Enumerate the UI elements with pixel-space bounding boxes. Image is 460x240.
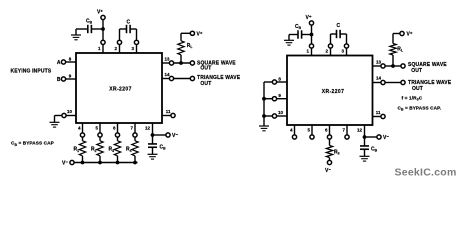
svg-text:B: B: [57, 77, 61, 83]
svg-text:12: 12: [357, 128, 363, 133]
svg-text:V⁺: V⁺: [306, 15, 312, 21]
svg-text:C: C: [126, 20, 130, 26]
svg-text:11: 11: [376, 110, 381, 115]
svg-text:V⁻: V⁻: [383, 135, 389, 141]
svg-text:SeekIC.com: SeekIC.com: [395, 167, 457, 179]
svg-text:10: 10: [67, 109, 73, 114]
svg-text:OUT: OUT: [412, 86, 423, 92]
svg-text:V⁻: V⁻: [325, 168, 331, 174]
svg-text:13: 13: [376, 60, 382, 65]
svg-text:XR-2207: XR-2207: [109, 87, 132, 93]
svg-text:V⁺: V⁺: [197, 31, 203, 37]
svg-text:XR-2207: XR-2207: [322, 89, 345, 95]
svg-text:V⁻: V⁻: [62, 161, 68, 167]
svg-text:11: 11: [166, 109, 171, 114]
svg-text:A: A: [57, 60, 61, 66]
svg-text:f = 1/R3C: f = 1/R3C: [402, 95, 423, 101]
svg-text:13: 13: [164, 57, 170, 62]
svg-text:V⁺: V⁺: [407, 32, 413, 38]
svg-text:SQUARE WAVE: SQUARE WAVE: [408, 62, 447, 68]
svg-text:14: 14: [376, 76, 382, 81]
svg-text:14: 14: [164, 72, 170, 77]
svg-text:KEYING INPUTS: KEYING INPUTS: [11, 69, 52, 75]
svg-text:12: 12: [145, 126, 151, 131]
svg-text:OUT: OUT: [411, 68, 422, 74]
svg-text:OUT: OUT: [200, 66, 211, 72]
svg-text:OUT: OUT: [200, 81, 211, 87]
svg-text:C: C: [336, 23, 340, 29]
svg-text:V⁻: V⁻: [172, 133, 178, 139]
svg-text:V⁺: V⁺: [97, 10, 103, 16]
svg-text:10: 10: [278, 110, 284, 115]
